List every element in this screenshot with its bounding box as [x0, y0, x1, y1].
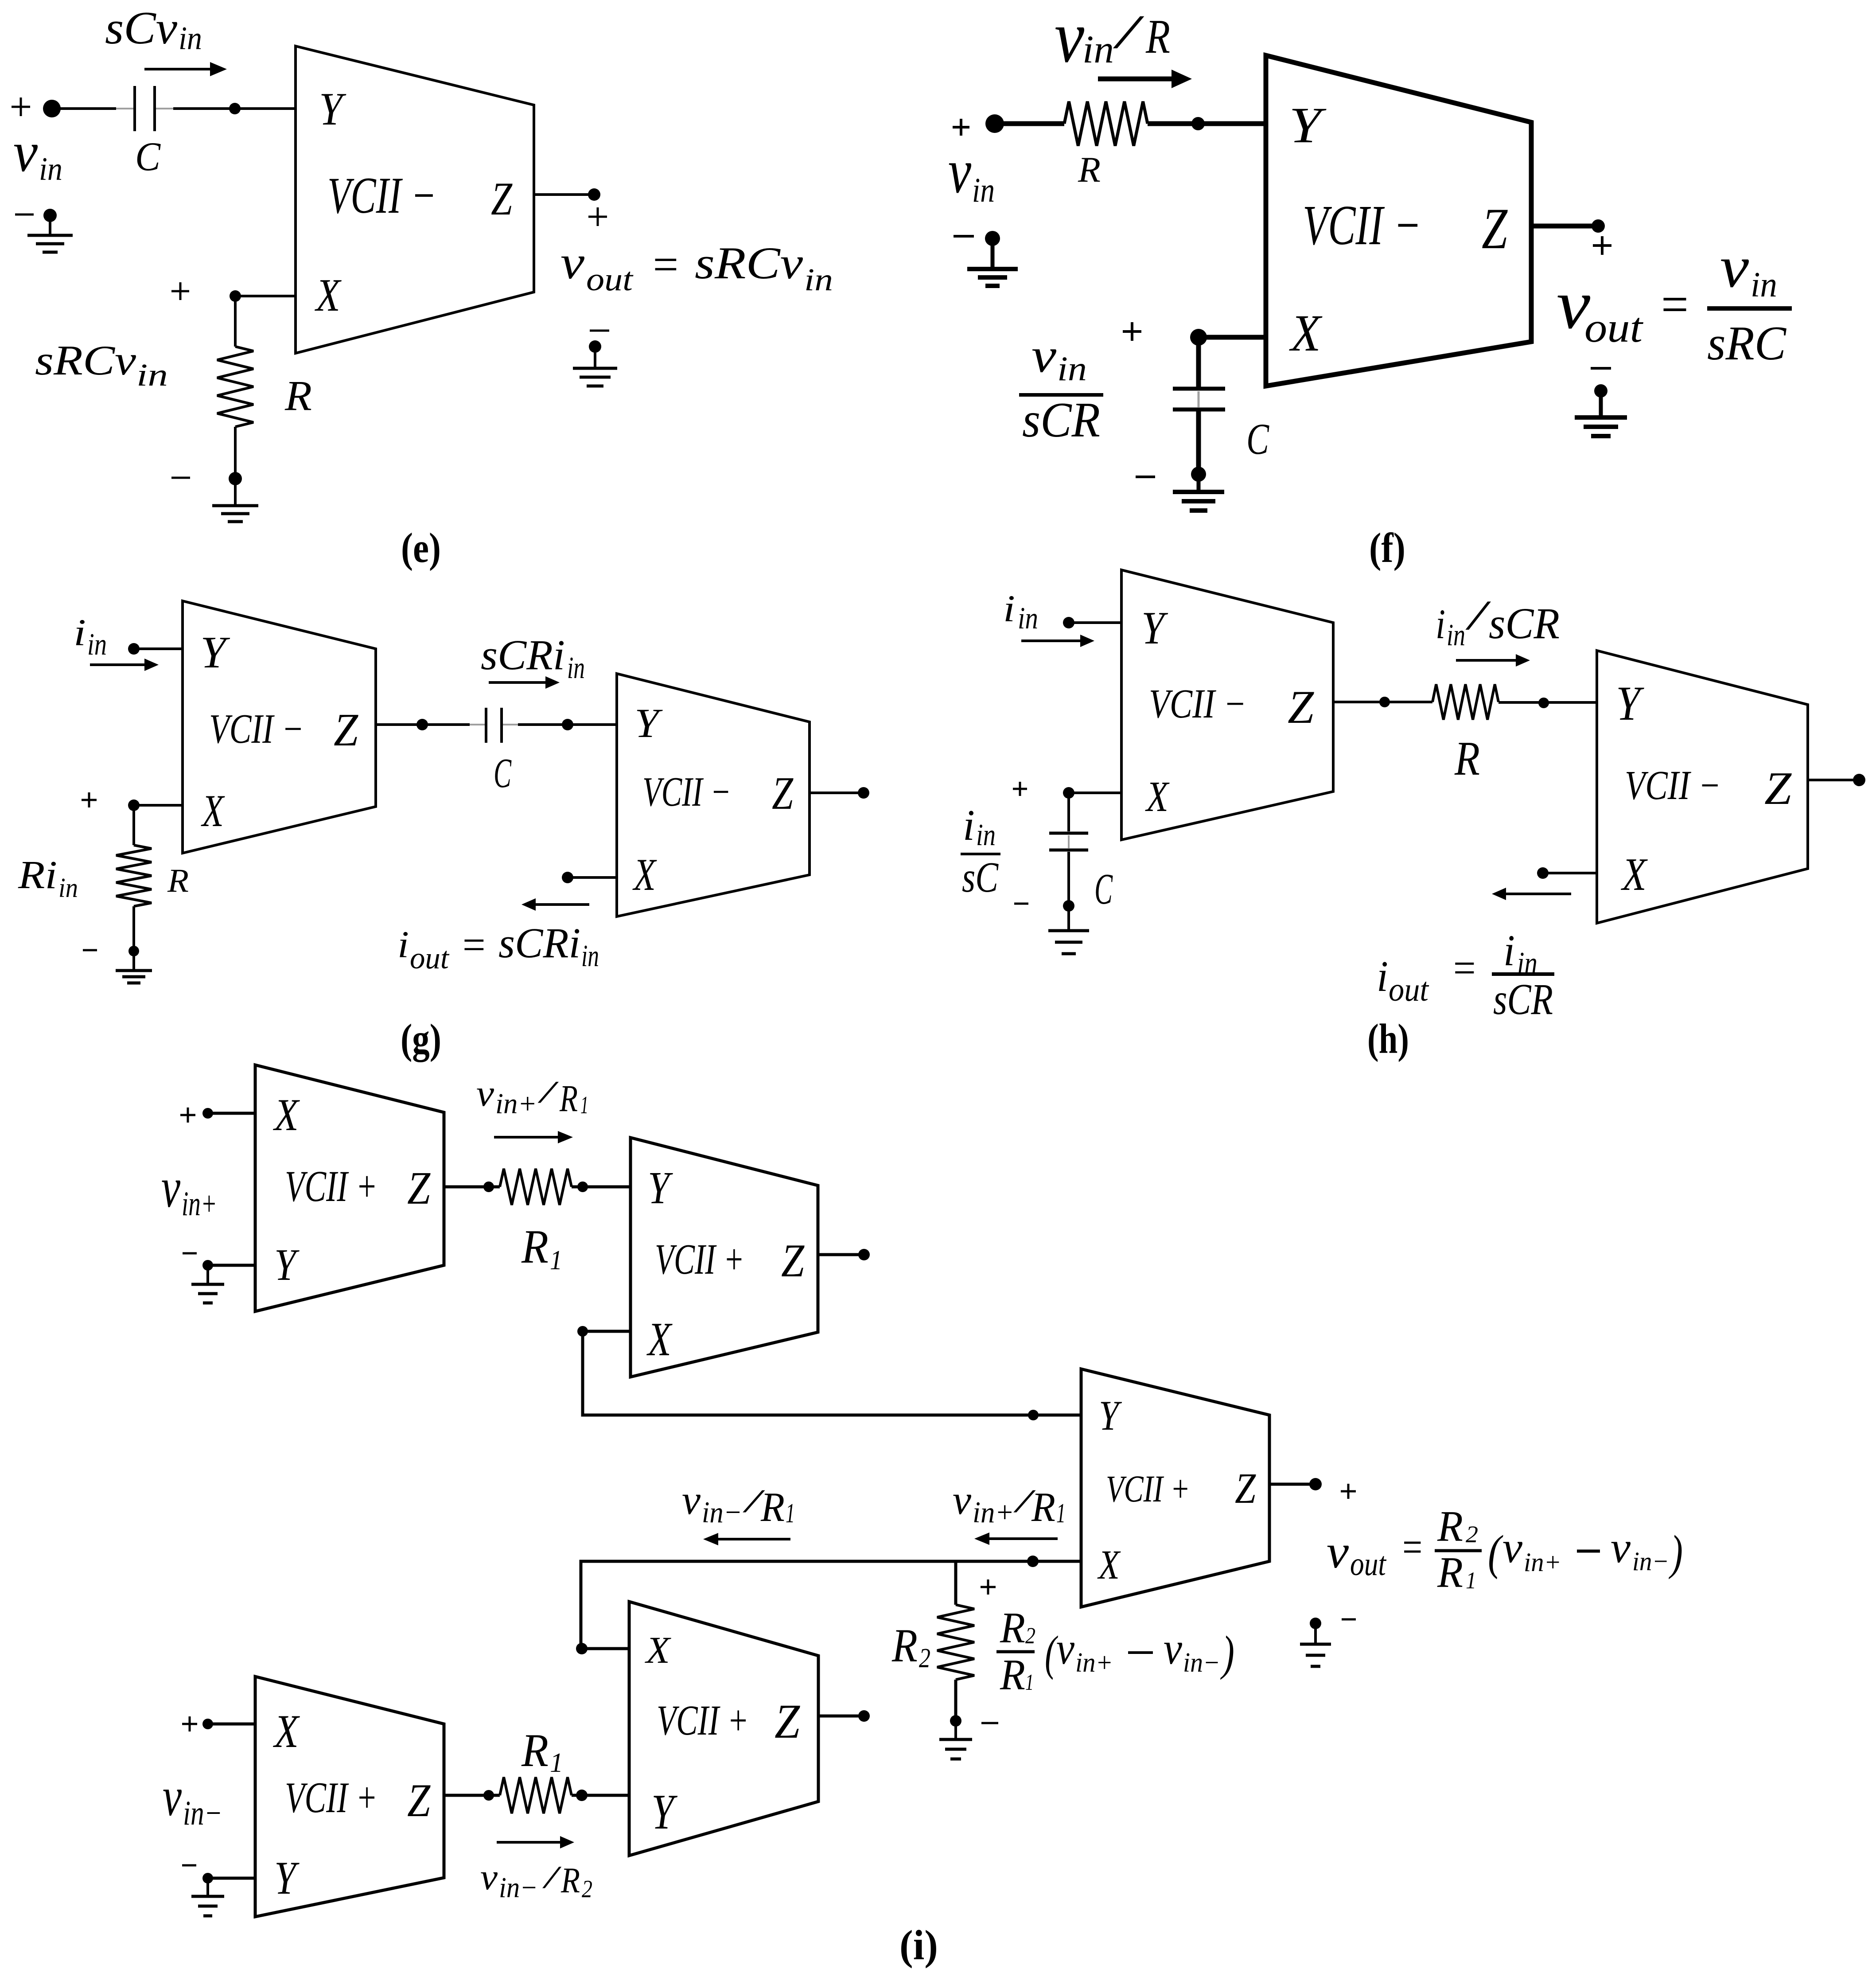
resistor R2 (i)	[937, 1561, 974, 1721]
svg-text:v: v	[1031, 328, 1056, 382]
ground input (e)	[15, 209, 73, 252]
ground output (i)	[1300, 1618, 1356, 1666]
capacitor C (h)	[1049, 793, 1088, 906]
current arrow vin/R (f)	[1098, 70, 1192, 88]
op-amp U6 VCII- (h)	[1597, 651, 1808, 923]
label iout = iin/sCR fraction (h)	[1377, 926, 1554, 1024]
wire R1 to Y5 (i)	[572, 1790, 629, 1801]
svg-text:VCII +: VCII +	[655, 1236, 744, 1283]
wire X2 (h)	[1537, 867, 1597, 879]
label R1 (i)	[521, 1221, 562, 1275]
svg-text:Y: Y	[648, 1162, 673, 1213]
svg-text:in−: in−	[1183, 1648, 1220, 1678]
svg-text:Y: Y	[1616, 676, 1644, 730]
capacitor C (f)	[1173, 337, 1225, 474]
svg-text:out: out	[586, 261, 634, 298]
svg-text:sRC: sRC	[1707, 316, 1786, 370]
node vin+ terminal (f)	[953, 114, 1004, 136]
label vin/R (f)	[1055, 0, 1170, 78]
svg-text:VCII +: VCII +	[285, 1774, 378, 1822]
caption (e)	[401, 524, 441, 571]
label vout = sRCvin (e)	[560, 237, 833, 298]
svg-text:2: 2	[582, 1876, 592, 1903]
svg-text:v: v	[480, 1856, 498, 1898]
svg-text:Y: Y	[1289, 97, 1327, 153]
svg-text:in: in	[1018, 601, 1038, 636]
svg-text:2: 2	[919, 1643, 930, 1673]
svg-text:v: v	[476, 1072, 494, 1114]
label vin-/R1 (i)	[682, 1477, 795, 1530]
wire capacitor to Y (e)	[156, 108, 296, 109]
label R2/R1 (vin+ - vin-) beside R2 (i)	[981, 1579, 1234, 1699]
svg-text:R: R	[1437, 1548, 1463, 1597]
svg-text:Z: Z	[491, 173, 513, 225]
node vout terminal (f)	[1592, 219, 1611, 255]
resistor R (f)	[995, 101, 1266, 146]
label vin+/R1 left (i)	[953, 1477, 1066, 1530]
svg-text:i: i	[74, 611, 86, 654]
svg-text:v: v	[1611, 1523, 1631, 1572]
wire R to Y2 (h)	[1498, 698, 1597, 708]
svg-text:Z: Z	[407, 1774, 431, 1826]
svg-text:sCRi: sCRi	[498, 919, 580, 967]
wire X4 input (i)	[208, 1723, 255, 1726]
svg-text:=: =	[1400, 1522, 1424, 1571]
svg-text:Z: Z	[334, 704, 359, 756]
ground Y1 (i)	[183, 1253, 224, 1303]
label vin (e)	[13, 121, 62, 187]
current arrow iin (g)	[90, 659, 159, 671]
svg-text:i: i	[963, 801, 975, 850]
svg-text:in+: in+	[1075, 1648, 1113, 1678]
op-amp U5 VCII- (h)	[1121, 570, 1333, 840]
label vin- (i)	[163, 1766, 222, 1832]
svg-text:out: out	[1350, 1546, 1387, 1583]
wire Z2 output (g)	[810, 787, 869, 799]
label sCRiin (g)	[481, 631, 585, 685]
svg-text:VCII −: VCII −	[642, 769, 731, 815]
wire input to capacitor C (e)	[52, 107, 133, 110]
svg-text:Y: Y	[200, 628, 230, 678]
label vout = vin/sRC (f)	[1557, 234, 1792, 370]
svg-text:in: in	[58, 873, 78, 903]
wire Z3 output (i)	[1269, 1478, 1356, 1499]
svg-text:(f): (f)	[1369, 524, 1405, 571]
label R (h)	[1454, 732, 1480, 785]
svg-text:Y: Y	[1141, 602, 1168, 654]
node X junction (h)	[1013, 782, 1074, 799]
svg-text:(g): (g)	[401, 1015, 441, 1062]
resistor R (e)	[217, 296, 253, 479]
svg-text:in−: in−	[183, 1794, 222, 1832]
current arrow iout (h)	[1492, 888, 1571, 900]
wire Z5 output (i)	[818, 1710, 870, 1722]
node iin input (h)	[1063, 617, 1074, 628]
svg-text:R: R	[1031, 1484, 1055, 1530]
svg-text:in: in	[976, 818, 996, 852]
svg-text:i: i	[1436, 601, 1445, 647]
svg-text:out: out	[410, 941, 450, 975]
svg-text:VCII −: VCII −	[1149, 681, 1246, 727]
wire X3 net with riser (i)	[581, 1556, 1081, 1649]
label R (g)	[167, 862, 189, 899]
node vin+ terminal (e)	[12, 97, 61, 117]
wire Z to capacitor (g)	[376, 723, 485, 726]
svg-text:X: X	[273, 1705, 300, 1757]
label C (g)	[494, 750, 512, 796]
svg-text:VCII +: VCII +	[1106, 1467, 1190, 1510]
ground (g)	[116, 951, 152, 983]
svg-text:Z: Z	[1288, 681, 1314, 733]
wire R1 to Y2 (i)	[572, 1182, 631, 1192]
node vin+ terminal (i)	[180, 1107, 213, 1123]
ground Y4 (i)	[182, 1865, 224, 1916]
node vout terminal (e)	[588, 188, 607, 226]
node capacitor bottom (h)	[1014, 900, 1074, 912]
wire Z1 (h)	[1333, 697, 1432, 707]
node resistor bottom (e)	[171, 472, 242, 485]
svg-text:v: v	[161, 1156, 180, 1219]
svg-text:sCR: sCR	[1022, 393, 1100, 448]
svg-text:Y: Y	[274, 1852, 300, 1904]
label sCvin (e)	[105, 2, 202, 57]
svg-text:Z: Z	[781, 1235, 805, 1287]
svg-text:R: R	[167, 862, 189, 899]
svg-text:v: v	[682, 1477, 701, 1523]
op-amp U10 VCII+ (i)	[255, 1677, 444, 1917]
resistor R (h)	[1432, 684, 1498, 720]
label iin (h)	[1003, 587, 1038, 636]
label iin/sC fraction (h)	[961, 801, 1000, 901]
svg-text:v: v	[953, 1477, 971, 1523]
op-amp U8 VCII+ (i)	[631, 1138, 818, 1377]
svg-text:v: v	[560, 237, 585, 289]
svg-text:1: 1	[580, 1092, 588, 1119]
svg-text:1: 1	[550, 1245, 562, 1275]
resistor R1 (i)	[500, 1169, 572, 1205]
svg-text:X: X	[1097, 1542, 1121, 1588]
svg-text:in: in	[1082, 28, 1114, 71]
ground resistor (e)	[212, 479, 258, 522]
svg-text:out: out	[1584, 304, 1644, 351]
resistor R1 bottom (i)	[500, 1777, 572, 1813]
svg-text:2: 2	[1025, 1623, 1035, 1649]
label vin/sCR fraction (f)	[1019, 328, 1103, 448]
current arrow iin/sCR (h)	[1456, 654, 1530, 667]
wire X (g)	[134, 804, 183, 807]
svg-text:Z: Z	[1482, 196, 1508, 261]
svg-text:i: i	[397, 923, 409, 966]
svg-text:in: in	[136, 357, 168, 393]
op-amp U2 VCII- (f)	[1266, 55, 1531, 386]
caption (h)	[1367, 1015, 1409, 1062]
svg-text:2: 2	[1466, 1521, 1478, 1548]
svg-text:v: v	[1327, 1526, 1349, 1578]
node Z junction (g)	[416, 719, 428, 730]
capacitor C (g)	[486, 708, 502, 743]
current arrow iout (g)	[522, 898, 589, 911]
svg-text:X: X	[201, 786, 225, 836]
svg-text:v: v	[1164, 1623, 1182, 1674]
label R2 (i)	[891, 1620, 930, 1673]
label C (f)	[1246, 414, 1269, 464]
svg-text:X: X	[273, 1090, 300, 1140]
node iin input (g)	[128, 643, 140, 655]
wire Z4 (i)	[444, 1790, 500, 1801]
svg-text:VCII +: VCII +	[285, 1162, 378, 1211]
wire X1 input (i)	[208, 1112, 255, 1115]
op-amp U11 VCII+ (i)	[629, 1602, 818, 1856]
current arrow iin (h)	[1021, 635, 1094, 647]
svg-text:=: =	[460, 921, 487, 968]
node capacitor bottom (f)	[1136, 467, 1206, 482]
wire Y4 input (i)	[208, 1877, 255, 1880]
svg-text:C: C	[494, 750, 512, 796]
svg-text:Y: Y	[651, 1785, 678, 1840]
label vin (f)	[948, 136, 995, 209]
svg-text:R: R	[1145, 10, 1170, 63]
node Y junction (e)	[229, 103, 241, 114]
resistor R (g)	[116, 805, 152, 951]
svg-text:in: in	[567, 651, 585, 685]
svg-text:sRCv: sRCv	[695, 238, 803, 289]
svg-text:Z: Z	[1764, 762, 1792, 814]
ground input (f)	[954, 231, 1018, 286]
current arrow vin+/R1 (i)	[494, 1131, 573, 1143]
wire Y input (g)	[134, 647, 183, 650]
svg-text:i: i	[1003, 587, 1015, 630]
label vin+/R1 top (i)	[476, 1072, 588, 1120]
svg-text:in: in	[179, 20, 202, 57]
op-amp U9 VCII+ (i)	[1081, 1369, 1269, 1607]
label R1 bottom (i)	[521, 1724, 563, 1778]
node resistor bottom (g)	[83, 946, 139, 956]
svg-text:in: in	[39, 151, 62, 187]
capacitor C (e)	[135, 86, 155, 131]
wire X (h)	[1069, 792, 1121, 794]
svg-text:v: v	[1502, 1523, 1523, 1572]
svg-text:VCII −: VCII −	[1303, 194, 1421, 257]
ground R2 (i)	[939, 1721, 972, 1759]
label C (e)	[135, 134, 161, 179]
svg-text:VCII −: VCII −	[327, 167, 436, 224]
svg-text:sCRi: sCRi	[481, 631, 565, 678]
op-amp U1 VCII- (e)	[296, 46, 534, 353]
svg-text:(h): (h)	[1367, 1015, 1409, 1062]
node vin- terminal (i)	[182, 1716, 213, 1731]
current arrow sCvin (e)	[144, 62, 227, 76]
svg-text:in: in	[972, 171, 995, 209]
ground output (f)	[1575, 368, 1627, 436]
svg-text:1: 1	[1466, 1567, 1476, 1594]
svg-text:sCR: sCR	[1489, 599, 1560, 648]
svg-text:X: X	[645, 1629, 672, 1671]
svg-text:in: in	[1057, 349, 1087, 388]
label vin+ (i)	[161, 1156, 217, 1223]
label sRCvin (e)	[35, 337, 168, 393]
svg-text:1: 1	[1025, 1670, 1034, 1695]
svg-text:v: v	[1055, 0, 1084, 78]
ground capacitor (f)	[1173, 474, 1224, 511]
svg-text:X: X	[1145, 773, 1170, 820]
svg-text:Y: Y	[1099, 1392, 1122, 1439]
op-amp U3 VCII- (g)	[183, 601, 376, 853]
svg-text:v: v	[948, 136, 971, 206]
svg-text:in: in	[1447, 618, 1465, 652]
svg-text:C: C	[1094, 865, 1113, 913]
svg-text:in−: in−	[499, 1872, 538, 1904]
node X junction (g)	[82, 792, 140, 811]
svg-text:in+: in+	[495, 1088, 537, 1120]
svg-text:sC: sC	[962, 854, 999, 901]
svg-text:Z: Z	[775, 1694, 801, 1748]
svg-text:=: =	[1451, 944, 1478, 992]
svg-text:R: R	[560, 1860, 580, 1900]
svg-text:Y: Y	[274, 1240, 300, 1290]
node X junction (e)	[171, 282, 241, 302]
svg-text:(i): (i)	[899, 1922, 938, 1969]
label iin (g)	[74, 611, 107, 662]
svg-text:Z: Z	[1235, 1465, 1256, 1512]
svg-text:Z: Z	[407, 1162, 431, 1214]
node Y junction (f)	[1191, 117, 1205, 130]
svg-text:sCv: sCv	[105, 2, 177, 54]
svg-text:in+: in+	[182, 1184, 217, 1223]
svg-text:1: 1	[1056, 1498, 1066, 1529]
svg-text:out: out	[1389, 971, 1429, 1008]
svg-text:i: i	[1377, 952, 1388, 1001]
svg-text:C: C	[1246, 414, 1269, 464]
svg-text:X: X	[315, 269, 342, 321]
current arrow vin-/R1 (i)	[703, 1533, 790, 1545]
svg-text:(: (	[1488, 1525, 1503, 1579]
svg-text:v: v	[163, 1766, 182, 1828]
op-amp U7 VCII+ (i)	[255, 1065, 444, 1311]
wire Z2 output (h)	[1808, 774, 1865, 786]
caption (f)	[1369, 524, 1405, 571]
node Y3 junction (i)	[1028, 1410, 1039, 1420]
svg-text:R: R	[1078, 149, 1101, 190]
current arrow vin+/R1 left (i)	[974, 1532, 1058, 1545]
current arrow sCRiin (g)	[489, 676, 560, 689]
wire X5 (i)	[576, 1643, 629, 1654]
caption (i)	[899, 1922, 938, 1969]
svg-text:C: C	[135, 134, 161, 179]
node X junction (f)	[1123, 322, 1207, 346]
wire X2 (g)	[562, 872, 617, 883]
wire Z1 (i)	[444, 1182, 500, 1192]
svg-text:R: R	[891, 1620, 918, 1672]
label Riin (g)	[18, 853, 78, 903]
ground (h)	[1048, 906, 1089, 954]
svg-text:in−: in−	[702, 1495, 742, 1529]
wire Y1 input (i)	[208, 1264, 255, 1267]
label iout = sCRiin (g)	[397, 919, 599, 975]
svg-text:R: R	[284, 372, 312, 419]
current arrow vin-/R2 (i)	[497, 1836, 574, 1848]
svg-text:X: X	[632, 850, 657, 900]
svg-text:R: R	[1437, 1502, 1463, 1551]
svg-text:VCII −: VCII −	[1625, 763, 1721, 808]
svg-text:R: R	[521, 1724, 549, 1776]
svg-text:R: R	[1000, 1604, 1025, 1652]
node Y2 junction (g)	[562, 719, 573, 730]
svg-text:X: X	[646, 1313, 673, 1366]
label R (e)	[284, 372, 312, 419]
svg-text:sRCv: sRCv	[35, 337, 136, 384]
svg-text:sCR: sCR	[1493, 975, 1553, 1024]
svg-text:in: in	[804, 262, 833, 297]
node R2 bottom (i)	[950, 1715, 998, 1727]
svg-text:=: =	[1658, 275, 1691, 334]
label vout = R2/R1 (vin+ - vin-) (i)	[1327, 1502, 1683, 1597]
wire X (f)	[1199, 335, 1266, 340]
label C (h)	[1094, 865, 1113, 913]
svg-text:in: in	[581, 939, 599, 973]
wire X (e)	[235, 295, 296, 297]
svg-text:R: R	[1000, 1651, 1025, 1699]
svg-text:in: in	[1751, 265, 1777, 304]
wire Z output (f)	[1531, 224, 1598, 229]
label vin-/R2 (i)	[480, 1856, 592, 1904]
svg-text:R: R	[760, 1484, 785, 1530]
svg-text:): )	[1220, 1626, 1234, 1680]
svg-text:Y: Y	[634, 701, 663, 746]
svg-text:1: 1	[786, 1498, 795, 1529]
svg-text:X: X	[1621, 848, 1648, 900]
svg-text:R: R	[521, 1221, 549, 1273]
svg-text:R: R	[1454, 732, 1480, 785]
wire Z2 output (i)	[818, 1249, 870, 1260]
caption (g)	[401, 1015, 441, 1062]
wire capacitor to Y2 (g)	[503, 724, 617, 725]
svg-text:(e): (e)	[401, 524, 441, 571]
svg-text:i: i	[1503, 926, 1515, 975]
svg-text:1: 1	[550, 1748, 563, 1778]
svg-text:VCII −: VCII −	[209, 706, 304, 752]
svg-text:Y: Y	[319, 83, 346, 135]
svg-text:in: in	[87, 628, 107, 662]
op-amp U4 VCII- (g)	[617, 674, 810, 916]
svg-text:Z: Z	[772, 767, 794, 819]
label iin/sCR (h)	[1436, 592, 1560, 652]
svg-text:v: v	[1056, 1623, 1074, 1674]
wire Z output (e)	[534, 193, 594, 196]
svg-text:): )	[1668, 1525, 1683, 1579]
svg-text:VCII +: VCII +	[657, 1696, 749, 1744]
svg-text:X: X	[1289, 304, 1322, 362]
label R (f)	[1078, 149, 1101, 190]
svg-text:in+: in+	[973, 1495, 1014, 1529]
svg-text:=: =	[650, 238, 681, 290]
svg-text:in−: in−	[1632, 1547, 1669, 1576]
wire X2 to Y3 net (i)	[577, 1326, 1081, 1415]
svg-text:v: v	[1720, 234, 1749, 300]
svg-text:R: R	[559, 1077, 578, 1119]
wire Y input (h)	[1069, 621, 1121, 624]
ground output (e)	[573, 331, 617, 386]
svg-text:Ri: Ri	[18, 853, 57, 897]
svg-text:v: v	[13, 121, 38, 183]
svg-text:in+: in+	[1524, 1548, 1561, 1577]
